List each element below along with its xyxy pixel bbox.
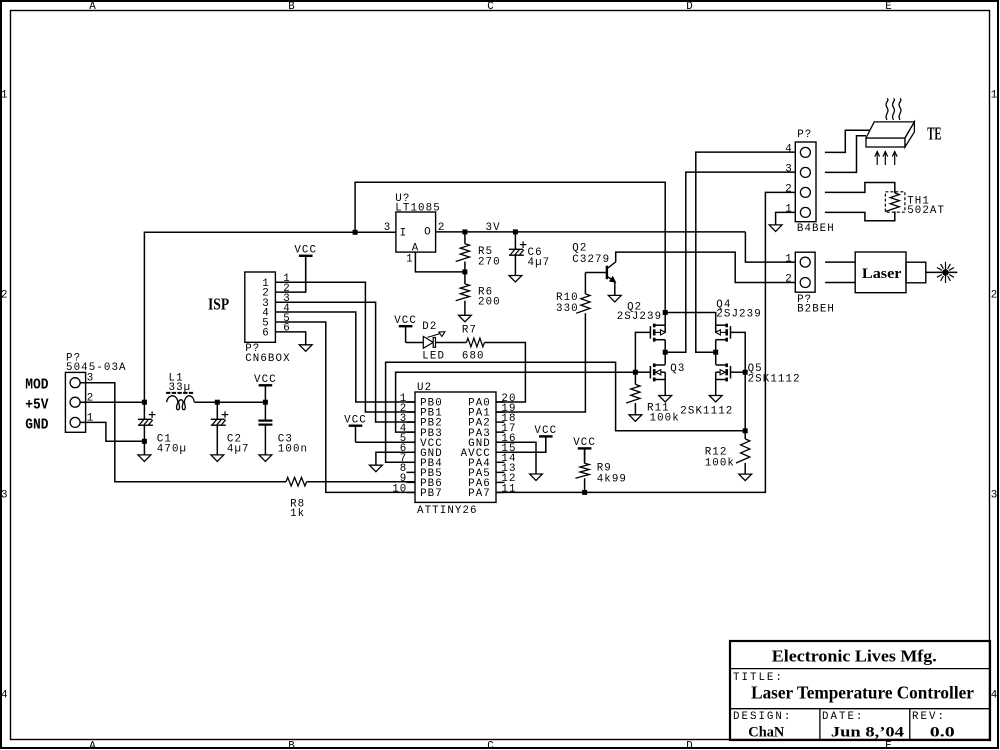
svg-text:TE: TE — [927, 123, 941, 143]
svg-text:4: 4 — [1, 690, 9, 702]
junction R9 / thermistor divider — [582, 490, 587, 495]
svg-text:33µ: 33µ — [169, 382, 192, 394]
TE module 3D box — [866, 122, 914, 147]
svg-text:200: 200 — [478, 297, 501, 309]
junction +5V / C1 / L1 — [142, 400, 147, 405]
mcu U2 right pin stubs — [496, 402, 505, 492]
svg-text:B: B — [288, 741, 296, 750]
wire PFET source rail to Q4 — [665, 313, 716, 326]
svg-text:1k: 1k — [290, 508, 305, 520]
power symbol VCC at D2 — [394, 315, 417, 343]
svg-text:R7: R7 — [462, 325, 477, 337]
wire U2 pin15 AVCC to VCC — [496, 437, 546, 453]
svg-text:1: 1 — [1, 90, 9, 102]
connector P3 B4BEH body — [795, 142, 816, 222]
svg-text:3: 3 — [384, 222, 392, 234]
svg-text:R12: R12 — [705, 446, 728, 458]
svg-text:2SK1112: 2SK1112 — [748, 373, 801, 385]
wire TE output A to B4BEH pin3 — [665, 172, 795, 352]
svg-text:4: 4 — [785, 143, 793, 155]
wire R8 to U2 PB6 — [307, 481, 415, 483]
resistor R9 — [575, 463, 589, 478]
svg-text:A: A — [89, 741, 97, 750]
junction C1 / GND wire — [142, 439, 147, 444]
svg-text:Q3: Q3 — [670, 363, 685, 375]
wire ISP pin5 to U2 PB7 — [275, 322, 415, 492]
svg-text:E: E — [885, 741, 893, 750]
svg-text:2SJ239: 2SJ239 — [716, 309, 761, 321]
connector P3 pin circles — [800, 147, 810, 217]
resistor R12 — [736, 439, 750, 463]
ground below R6 — [459, 315, 472, 322]
junction +5V rail to FET bridge feed — [353, 230, 358, 235]
svg-text:11: 11 — [501, 483, 516, 495]
junction PFET source rail — [663, 310, 668, 315]
svg-text:3: 3 — [785, 163, 793, 175]
wire B4BEH pin1 to ground — [776, 212, 796, 225]
svg-text:E: E — [885, 1, 893, 13]
TE heat squiggles — [886, 98, 901, 120]
svg-text:680: 680 — [462, 351, 485, 363]
resistor R5 — [456, 244, 470, 262]
ground at ISP pin6 — [299, 345, 312, 352]
wire R6 bottom stem — [464, 301, 466, 316]
wire U2 pin6 to ground — [376, 452, 415, 465]
svg-text:2: 2 — [785, 183, 793, 195]
inductor L1 core dashes — [166, 392, 194, 394]
wire B4BEH pin2 to thermistor top — [825, 183, 895, 194]
connector P1 body — [65, 372, 85, 432]
svg-text:4k99: 4k99 — [597, 473, 627, 485]
svg-text:1: 1 — [406, 254, 414, 266]
wire laser beam — [926, 271, 958, 273]
power symbol VCC at ISP pin2 — [294, 245, 317, 293]
junction PB4 gates / R12 — [743, 428, 748, 433]
laser lens box — [906, 262, 926, 283]
svg-text:DESIGN:: DESIGN: — [733, 711, 792, 723]
wire 3V to laser connector pin1 — [745, 232, 795, 262]
junction PB3 gates / R11 — [633, 370, 638, 375]
svg-text:CN6BOX: CN6BOX — [245, 353, 290, 365]
wire +5V from P1 pin2 to L1 junction — [80, 401, 144, 403]
wire U1 adjust pin to R5/R6 junction — [415, 252, 465, 272]
ground below Q1 emitter — [608, 295, 621, 302]
connector P4 pin circles — [800, 257, 810, 287]
svg-text:C3279: C3279 — [572, 254, 610, 266]
mcu U2 left pin stubs — [407, 402, 416, 492]
power symbol VCC above C3 — [254, 374, 277, 402]
wire Q1 emitter to ground — [614, 282, 616, 296]
wire Q1 collector to laser connector pin2 — [616, 252, 796, 282]
junction R5 / R6 / adjust — [462, 269, 467, 274]
ground at B4BEH pin1 — [769, 225, 782, 232]
svg-text:ISP: ISP — [208, 295, 229, 314]
wire R7 to U2 PA0 — [484, 343, 525, 403]
wire Q5 gate lead — [730, 371, 745, 373]
svg-text:6: 6 — [283, 323, 291, 335]
svg-text:2: 2 — [991, 290, 999, 302]
wire C2 top stem — [216, 402, 218, 419]
ground at U2 pin6 — [370, 465, 383, 472]
thermistor TH1 element — [886, 193, 900, 211]
svg-text:DATE:: DATE: — [822, 711, 864, 723]
wire Q1 base to R10 — [584, 273, 586, 294]
wire C6 bottom stem — [514, 255, 516, 275]
wire C2 junction to C3 junction — [217, 401, 265, 403]
wire U2 PB4 to Q4/Q5 gates — [386, 362, 746, 462]
svg-text:1: 1 — [991, 90, 999, 102]
ground below R12 — [739, 474, 752, 481]
transistor Q2 2SJ239 — [650, 324, 665, 342]
wire R12 bottom stem — [744, 463, 746, 474]
svg-text:B2BEH: B2BEH — [797, 304, 835, 316]
svg-text:REV:: REV: — [912, 711, 946, 723]
svg-text:MOD: MOD — [25, 377, 48, 394]
junction 3V / R5 — [462, 229, 467, 234]
resistor R10 — [576, 294, 590, 313]
wire R11 bottom stem — [634, 403, 636, 415]
svg-text:1: 1 — [785, 203, 793, 215]
transistor Q5 2SK1112 — [716, 363, 731, 381]
svg-text:C: C — [487, 741, 495, 750]
junction 3V / C6 — [513, 229, 518, 234]
svg-text:C: C — [487, 1, 495, 13]
LED D2 symbol — [423, 332, 445, 349]
svg-text:B4BEH: B4BEH — [797, 223, 835, 235]
wire R6 top stem — [464, 272, 466, 284]
capacitor C6 — [509, 241, 527, 255]
wire U2 PA7 thermistor sense — [496, 192, 795, 492]
svg-text:4µ7: 4µ7 — [528, 257, 551, 269]
power symbol VCC at U2 pin5 — [344, 415, 367, 443]
ground below C6 — [509, 276, 522, 283]
svg-text:330: 330 — [556, 303, 579, 315]
wire C6 top stem — [514, 232, 516, 249]
svg-text:D: D — [686, 741, 694, 750]
svg-text:ATTINY26: ATTINY26 — [417, 505, 478, 517]
wire Q2 drain to mid junction — [664, 340, 666, 365]
svg-text:R10: R10 — [556, 292, 579, 304]
wire C3 top stem — [264, 402, 266, 420]
svg-text:100n: 100n — [278, 443, 308, 455]
svg-text:2: 2 — [1, 290, 9, 302]
connector P4 B2BEH body — [795, 252, 815, 292]
regulator U1 body — [396, 212, 436, 252]
power symbol VCC at U2 AVCC — [534, 425, 557, 452]
ground below Q5 — [709, 396, 722, 403]
svg-text:B: B — [288, 1, 296, 13]
wire MOD from P1 pin3 to R8 — [80, 383, 286, 482]
wire +5V up to regulator rail — [144, 232, 396, 402]
wire LED cathode to R7 — [436, 342, 467, 344]
svg-text:2SK1112: 2SK1112 — [680, 406, 733, 418]
resistor R6 — [456, 284, 470, 301]
wire ISP pin4 to U2 PB0 — [275, 312, 415, 402]
svg-text:502AT: 502AT — [907, 205, 945, 217]
power symbol VCC above R9 — [573, 437, 596, 463]
wire ISP pin2 to VCC — [275, 256, 305, 292]
wire R11 top stem — [634, 372, 636, 384]
svg-text:D: D — [686, 1, 694, 13]
wire U2 pin16 to ground — [496, 442, 536, 474]
junction TE output A — [663, 350, 668, 355]
svg-text:GND: GND — [25, 416, 48, 433]
wire gate junction to Q2 gate — [635, 332, 650, 372]
svg-text:Electronic Lives Mfg.: Electronic Lives Mfg. — [772, 647, 937, 666]
wire ISP pin3 to U2 PB2 — [275, 302, 415, 422]
wire R9 bottom stem — [584, 478, 586, 492]
wire ISP pin1 to U2 PB1 — [275, 282, 415, 412]
thermistor TH1 dashed box — [885, 192, 905, 212]
junction TE output B — [713, 350, 718, 355]
wire R5 bottom stem — [464, 262, 466, 272]
svg-text:470µ: 470µ — [157, 443, 187, 455]
svg-text:ChaN: ChaN — [748, 725, 784, 741]
wire Q3 source to ground — [664, 380, 666, 396]
svg-text:PB7: PB7 — [420, 488, 443, 500]
inductor L1 — [167, 396, 195, 410]
svg-text:I: I — [400, 227, 408, 239]
svg-text:10: 10 — [392, 483, 407, 495]
svg-text:Laser: Laser — [862, 266, 902, 282]
connector P1 pin circles — [70, 378, 80, 428]
wire laser module anode — [825, 261, 855, 263]
title block dividers — [730, 669, 990, 740]
capacitor C1 — [138, 411, 156, 425]
svg-text:PA7: PA7 — [468, 488, 491, 500]
svg-text:A: A — [89, 1, 97, 13]
wire VCC to U2 pin5 — [356, 441, 416, 443]
wire B4BEH pin3 to TE bottom — [825, 136, 866, 173]
resistor R11 — [626, 384, 640, 403]
junction Q4 gate / Q5 gate — [743, 370, 748, 375]
svg-text:Jun 8,’04: Jun 8,’04 — [831, 725, 905, 741]
wire laser module cathode — [825, 282, 855, 284]
svg-text:3V: 3V — [486, 222, 501, 234]
wire ISP pin6 to ground — [275, 332, 305, 345]
junction VCC / C3 — [263, 400, 268, 405]
svg-text:0.0: 0.0 — [930, 725, 955, 741]
svg-text:1: 1 — [785, 253, 793, 265]
wire Q5 source to ground — [715, 380, 717, 396]
wire U2 PB3 to Q2/Q3 gates — [396, 372, 636, 432]
svg-text:3: 3 — [1, 490, 9, 502]
ground at U2 pin16 — [530, 474, 543, 481]
svg-text:Q2: Q2 — [572, 242, 587, 254]
mcu U2 body — [415, 392, 496, 502]
svg-text:6: 6 — [262, 328, 270, 340]
ground below R11 — [629, 415, 642, 422]
TE cold-side arrows — [875, 152, 897, 166]
svg-text:100k: 100k — [705, 458, 735, 470]
svg-text:4µ7: 4µ7 — [227, 443, 250, 455]
ground below Q3 — [659, 396, 672, 403]
svg-text:D2: D2 — [422, 321, 437, 333]
transistor Q1 C3279 symbol — [585, 262, 615, 282]
wire GND from P1 pin1 — [80, 422, 144, 441]
wire B4BEH pin4 to TE top — [825, 130, 870, 152]
ground below C1 — [138, 455, 151, 462]
svg-text:4: 4 — [991, 690, 999, 702]
ground below C2 — [211, 455, 224, 462]
title block box — [730, 641, 990, 740]
svg-text:100k: 100k — [650, 412, 680, 424]
svg-text:Laser Temperature Controller: Laser Temperature Controller — [751, 683, 974, 703]
resistor R8 — [286, 477, 307, 486]
capacitor C3 — [258, 421, 272, 425]
wire gate junction to Q3 gate — [635, 371, 650, 373]
wire C2 bottom stem — [216, 425, 218, 455]
svg-text:P?: P? — [797, 129, 812, 141]
capacitor C2 — [211, 411, 229, 425]
svg-text:3: 3 — [991, 490, 999, 502]
wire C3 bottom stem — [264, 425, 266, 455]
wire VCC to LED anode — [406, 342, 424, 344]
wire TE output B to B4BEH pin4 — [696, 152, 796, 352]
svg-text:5045-03A: 5045-03A — [66, 362, 127, 374]
transistor Q4 2SJ239 — [716, 324, 731, 342]
svg-text:+5V: +5V — [25, 396, 48, 413]
wire U1 output 3V rail — [436, 231, 746, 233]
svg-text:270: 270 — [478, 256, 501, 268]
wire Q4 drain to mid junction — [715, 340, 717, 365]
wire R5 top stem — [464, 232, 466, 244]
transistor Q3 2SK1112 — [650, 363, 665, 381]
svg-text:2: 2 — [785, 274, 793, 286]
wire R10 bottom to U2 PA1 — [496, 313, 585, 412]
laser beam starburst — [935, 262, 956, 283]
wire gate junction up to Q4/Q5 gates — [730, 332, 745, 430]
svg-text:2SJ239: 2SJ239 — [617, 311, 662, 323]
junction L1 / C2 — [215, 400, 220, 405]
wire R9 top stem — [584, 449, 586, 464]
wire +5V rail up and over to PFET sources — [355, 182, 665, 325]
wire thermistor bottom return — [825, 211, 895, 220]
ground below C3 — [259, 455, 272, 462]
svg-text:LED: LED — [422, 351, 445, 363]
wire C1 top stem — [143, 402, 145, 419]
laser module box — [855, 252, 906, 293]
wire L1 to C2 junction — [194, 401, 217, 403]
wire C1 bottom stem — [143, 425, 145, 455]
resistor R7 — [466, 338, 484, 347]
connector P2 ISP body — [245, 272, 276, 342]
wire R12 top stem — [744, 431, 746, 439]
svg-text:O: O — [424, 227, 432, 239]
